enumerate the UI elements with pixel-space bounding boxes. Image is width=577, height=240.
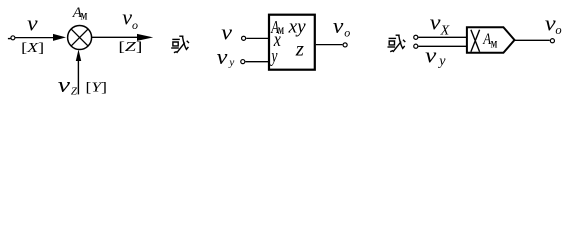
multiplier U3 pentagon body [467, 27, 515, 53]
svg-text:[Z]: [Z] [118, 40, 142, 55]
svg-text:X: X [440, 23, 450, 38]
arrowhead on X input wire [53, 34, 66, 41]
wire: x input to U2 [246, 37, 269, 39]
arrowhead on output wire [137, 34, 153, 41]
svg-text:v: v [58, 73, 71, 97]
text 或 (or) between diagram 2 and 3 [388, 35, 406, 52]
arrowhead on Y input wire (pointing up) [76, 49, 81, 61]
output terminal of U3 [550, 39, 554, 43]
multiplier U1 cross stroke 2 [71, 29, 88, 46]
wire: y input to U2 [246, 61, 270, 63]
text 或 (or) between diagram 1 and 2 [171, 36, 189, 53]
svg-text:z: z [295, 37, 304, 61]
svg-text:v: v [122, 4, 132, 29]
svg-text:v: v [333, 13, 344, 37]
stub on input terminal (X) [8, 38, 11, 40]
wire: U1 output Z [92, 36, 148, 38]
wire: X input to U1 [15, 37, 60, 39]
svg-text:o: o [132, 18, 138, 32]
wire: X input to U3 [418, 36, 466, 38]
svg-text:v: v [217, 45, 229, 70]
svg-text:v: v [430, 11, 442, 36]
input terminal y of U2 [241, 60, 245, 64]
multiplier U1 cross stroke 1 [71, 29, 88, 46]
svg-text:M: M [81, 11, 88, 21]
svg-text:v: v [425, 44, 437, 68]
output terminal z of U2 [343, 43, 347, 47]
input terminal (X) of multiplier U1 [11, 36, 15, 40]
svg-text:v: v [221, 20, 233, 45]
svg-text:o: o [555, 23, 561, 37]
svg-text:y: y [437, 54, 446, 69]
wire: z output of U2 [316, 44, 343, 46]
svg-text:o: o [344, 25, 350, 39]
svg-text:A: A [482, 31, 491, 49]
svg-text:[X]: [X] [21, 41, 44, 56]
svg-text:y: y [228, 56, 234, 68]
input terminal X of U3 [414, 35, 418, 39]
svg-text:M: M [491, 39, 498, 49]
wire: U3 output [515, 39, 550, 41]
svg-text:xy: xy [288, 16, 307, 37]
multiplier U2 box [269, 15, 315, 70]
wire: Y input to U3 [418, 45, 466, 47]
multiplier U1 circle [68, 26, 92, 50]
multiply sign stroke 2 inside U3 [471, 30, 480, 52]
input terminal x of U2 [242, 36, 246, 40]
input terminal Y of U3 [414, 44, 418, 48]
wire: Y input vertical [77, 55, 79, 94]
svg-text:[Y]: [Y] [86, 80, 108, 95]
svg-text:y: y [270, 45, 278, 67]
svg-text:Z: Z [71, 85, 78, 97]
multiply sign stroke 1 inside U3 [471, 30, 480, 52]
svg-text:v: v [27, 11, 38, 35]
